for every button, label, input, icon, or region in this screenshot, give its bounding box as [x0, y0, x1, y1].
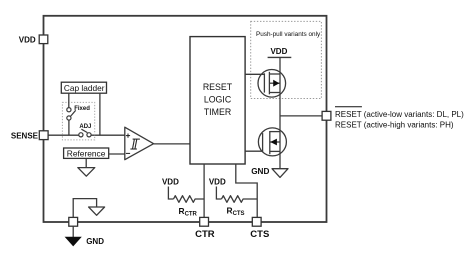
svg-text:VDD: VDD [19, 35, 36, 44]
comparator U1 [125, 127, 154, 160]
switch ADJ [79, 129, 91, 137]
hysteresis symbol [130, 139, 140, 149]
svg-text:Reference: Reference [67, 149, 106, 159]
pmos Q1 [258, 70, 286, 98]
overline on RESET [335, 106, 362, 108]
ground (reference) [78, 168, 95, 177]
reference block [64, 148, 109, 158]
wire timer to pmos gate [245, 73, 264, 75]
pin CTR [200, 217, 209, 226]
wire reference to comparator - input [108, 153, 125, 155]
svg-text:ADJ: ADJ [79, 124, 91, 130]
ground (output stage) [272, 169, 288, 178]
wire reference to ground [85, 158, 87, 167]
svg-text:VDD: VDD [162, 178, 179, 187]
svg-text:RESET (active-high variants: P: RESET (active-high variants: PH) [335, 121, 454, 130]
pin VDD [39, 35, 48, 44]
wire output node to RESET pin [280, 115, 322, 117]
wire comparator output to timer [154, 143, 190, 145]
comparator - symbol [126, 152, 130, 154]
svg-text:Cap ladder: Cap ladder [64, 83, 105, 93]
resistor R_CTS [222, 196, 258, 203]
svg-text:SENSE: SENSE [11, 131, 39, 140]
svg-text:CTR: CTR [195, 229, 215, 240]
wire VDD to R_CTS [216, 187, 221, 200]
resistor R_CTR [174, 196, 205, 203]
wire VDD to R_CTR [168, 187, 173, 200]
svg-text:Fixed: Fixed [74, 106, 90, 112]
ground GND (filled) [65, 237, 82, 247]
device outer boundary [44, 16, 327, 222]
ground (internal) [89, 207, 105, 215]
wire fixed switch to sense line [68, 120, 70, 135]
svg-text:LOGIC: LOGIC [204, 95, 232, 105]
wire GND pin to gnd symbol [72, 226, 74, 237]
pin CTS [252, 217, 261, 226]
wire SENSE to ADJ switch [48, 134, 79, 136]
svg-text:Push-pull variants only: Push-pull variants only [256, 31, 321, 38]
wire timer to nmos gate [245, 150, 262, 152]
wire pmos drain to nmos drain (output node) [279, 93, 281, 132]
wire ADJ switch to comparator + input [91, 134, 125, 136]
switch Fixed [67, 108, 76, 121]
wire cap ladder left tap [68, 93, 70, 107]
pin SENSE [39, 131, 48, 140]
cap ladder block [61, 82, 106, 93]
push-pull dashed box [251, 21, 322, 98]
svg-text:GND: GND [86, 237, 104, 246]
svg-text:GND: GND [251, 167, 269, 176]
svg-text:VDD: VDD [209, 178, 226, 187]
wire nmos source to ground [279, 151, 281, 168]
svg-text:RESET (active-low variants: DL: RESET (active-low variants: DL, PL) [335, 110, 464, 119]
svg-text:RESET: RESET [203, 82, 233, 92]
wire GND pin to internal ground [73, 199, 96, 218]
svg-text:VDD: VDD [270, 47, 287, 56]
wire VDD to pmos source [279, 57, 281, 74]
dashed selector box [62, 102, 94, 139]
pin RESET [322, 111, 331, 120]
wire cap ladder right tap [99, 93, 101, 135]
wire timer to CTS pin [236, 164, 257, 217]
VDD rail bar [268, 56, 292, 58]
nmos Q2 [258, 128, 286, 156]
svg-text:CTS: CTS [250, 229, 269, 240]
svg-text:TIMER: TIMER [204, 107, 231, 117]
reset logic timer block [190, 37, 245, 164]
wire timer to CTR pin [203, 164, 205, 217]
comparator + symbol [126, 134, 130, 138]
pin GND [69, 217, 78, 226]
